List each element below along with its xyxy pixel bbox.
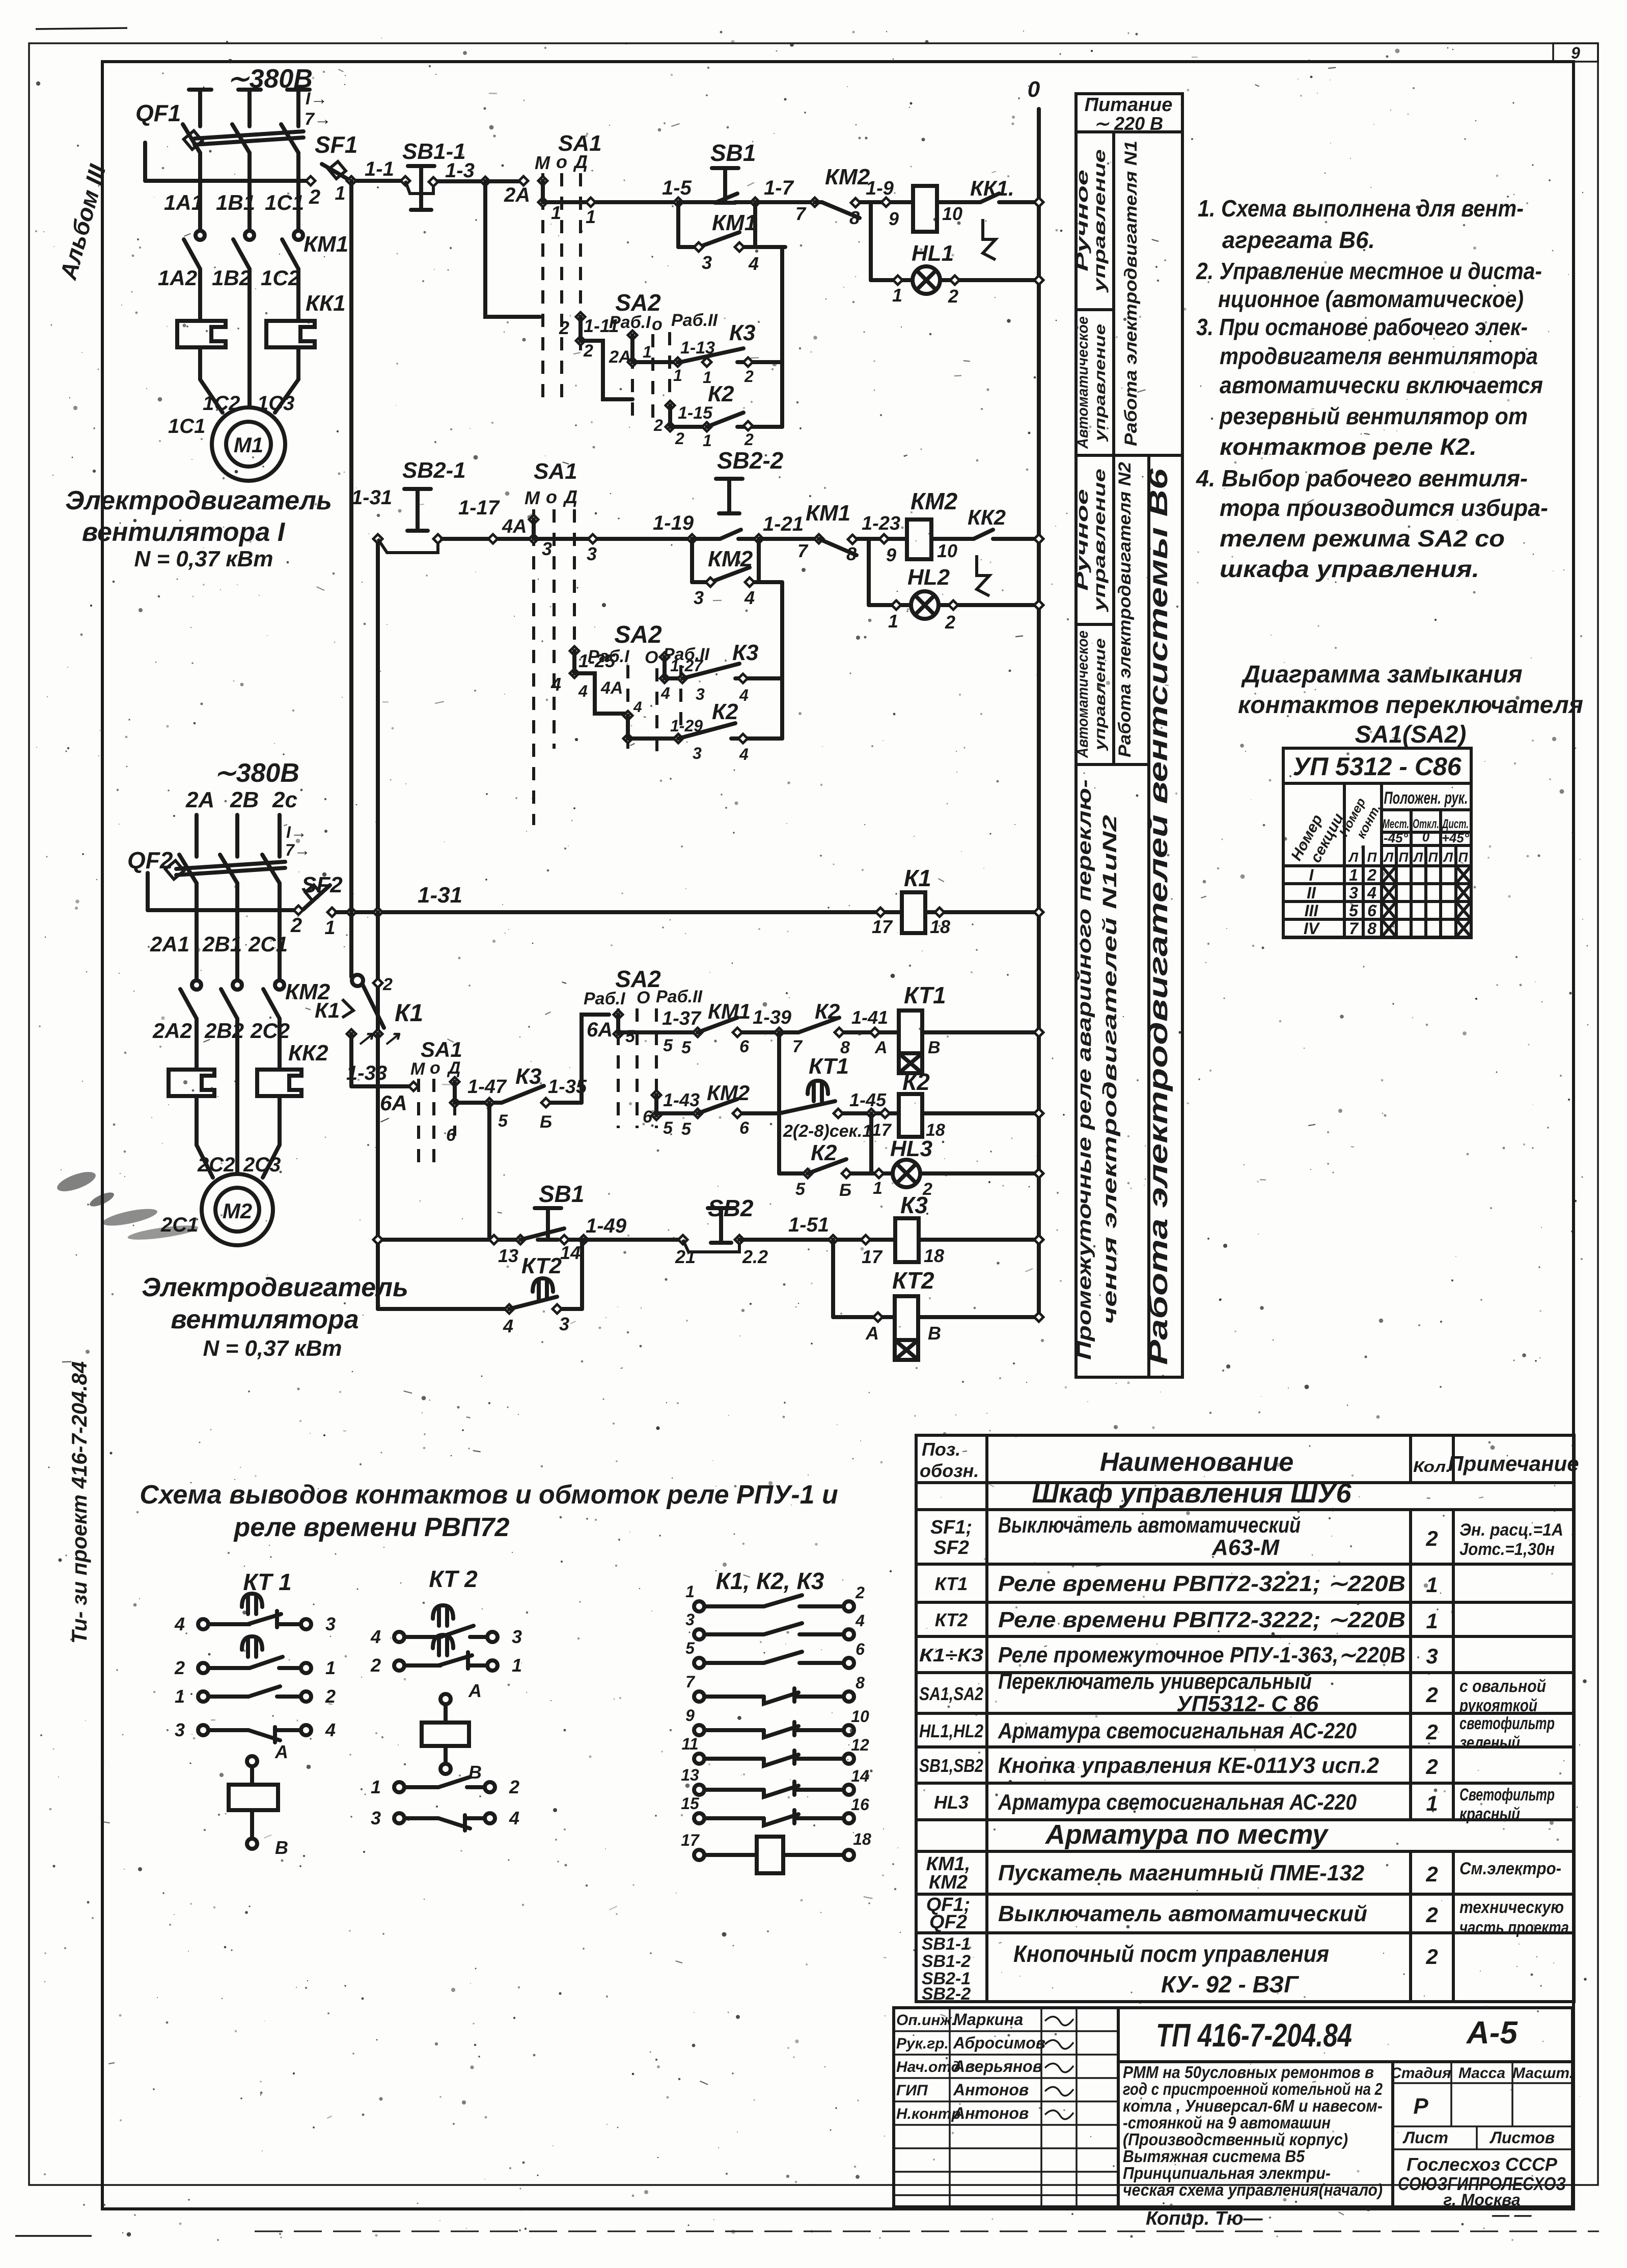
svg-text:2: 2 <box>370 1655 381 1676</box>
svg-text:К1, К2, К3: К1, К2, К3 <box>716 1568 824 1594</box>
svg-text:техническую: техническую <box>1459 1898 1564 1917</box>
svg-text:резервный вентилятор от: резервный вентилятор от <box>1219 403 1528 429</box>
svg-text:А: А <box>274 1741 288 1762</box>
svg-text:1-43: 1-43 <box>663 1089 700 1110</box>
svg-text:Переключатель универсальный: Переключатель универсальный <box>998 1669 1312 1694</box>
svg-text:П: П <box>1458 850 1469 865</box>
svg-text:8: 8 <box>1367 919 1376 938</box>
wire 2A jog <box>581 341 632 399</box>
svg-text:SB1: SB1 <box>539 1181 584 1207</box>
svg-text:0: 0 <box>1422 829 1430 844</box>
svg-text:управление: управление <box>1090 149 1109 293</box>
svg-text:Абросимов: Абросимов <box>953 2034 1045 2052</box>
svg-text:Дист.: Дист. <box>1442 817 1469 831</box>
svg-text:М: М <box>410 1059 425 1079</box>
margin note Альбом III <box>54 161 111 283</box>
svg-text:КМ2: КМ2 <box>911 488 958 514</box>
svg-text:Светофильтр: Светофильтр <box>1459 1785 1555 1805</box>
svg-text:4: 4 <box>633 699 642 716</box>
wire 1-37 <box>618 1030 698 1034</box>
svg-text:3. При останове рабочего элек-: 3. При останове рабочего элек- <box>1196 314 1528 340</box>
svg-text:1-21: 1-21 <box>763 513 804 535</box>
svg-text:Работа электродвигателя N1: Работа электродвигателя N1 <box>1121 141 1141 446</box>
wire SA2 collector riser 1 <box>780 247 784 427</box>
contact row <box>694 1691 704 1702</box>
svg-text:1-41: 1-41 <box>851 1007 888 1028</box>
svg-text:2: 2 <box>948 286 958 307</box>
sidebar cell автоматическое управление 1 <box>1074 316 1091 449</box>
svg-text:КК2: КК2 <box>968 505 1006 529</box>
svg-text:5: 5 <box>498 1111 508 1131</box>
svg-text:6А: 6А <box>587 1019 613 1041</box>
svg-text:6А: 6А <box>380 1091 407 1115</box>
svg-text:3: 3 <box>702 252 712 273</box>
svg-text:управление: управление <box>1090 469 1109 613</box>
svg-text:4: 4 <box>1367 884 1376 902</box>
svg-text:7: 7 <box>792 1037 803 1056</box>
svg-text:SA1: SA1 <box>534 459 577 484</box>
sidebar cell автоматическое управление 2 <box>1074 631 1091 758</box>
svg-text:Оп.инж.: Оп.инж. <box>896 2012 956 2029</box>
svg-text:2: 2 <box>1425 1720 1438 1744</box>
svg-text:4: 4 <box>550 674 561 695</box>
motor M2 <box>202 1174 273 1245</box>
svg-text:N = 0,37 кВт: N = 0,37 кВт <box>203 1336 342 1361</box>
svg-text:ТП 416-7-204.84: ТП 416-7-204.84 <box>1156 2017 1352 2054</box>
svg-text:SF1;: SF1; <box>930 1517 972 1538</box>
svg-text:2А: 2А <box>504 184 530 206</box>
svg-text:К2: К2 <box>708 381 734 406</box>
svg-text:I: I <box>1309 866 1314 884</box>
svg-text:реле времени РВП72: реле времени РВП72 <box>233 1513 510 1542</box>
svg-text:Гослесхоз СССР: Гослесхоз СССР <box>1407 2154 1558 2175</box>
svg-text:1: 1 <box>325 1657 336 1678</box>
svg-text:К2: К2 <box>712 699 738 724</box>
svg-text:2: 2 <box>1367 866 1376 884</box>
svg-text:HL3: HL3 <box>890 1136 932 1161</box>
svg-text:Л: Л <box>1413 850 1423 865</box>
svg-text:2. Управление местное и диста-: 2. Управление местное и диста- <box>1196 258 1542 284</box>
svg-text:обозн.: обозн. <box>920 1460 979 1481</box>
svg-text:нционное (автоматическое): нционное (автоматическое) <box>1218 286 1524 312</box>
svg-text:ГИП: ГИП <box>896 2082 928 2099</box>
svg-text:К1: К1 <box>904 865 931 891</box>
svg-text:Л: Л <box>1443 850 1453 865</box>
contact row <box>694 1725 704 1735</box>
svg-text:Автоматическое: Автоматическое <box>1074 631 1091 758</box>
svg-text:КМ1: КМ1 <box>712 210 757 235</box>
svg-text:1-31: 1-31 <box>351 486 392 509</box>
svg-text:— —: — — <box>1492 2205 1532 2225</box>
svg-text:1С2: 1С2 <box>261 266 300 290</box>
breaker QF2 tie bar <box>176 862 285 869</box>
contact row <box>694 1785 704 1795</box>
svg-text:HL2: HL2 <box>907 565 950 590</box>
svg-text:1: 1 <box>703 431 712 450</box>
svg-text:9: 9 <box>889 208 899 229</box>
wire SA2 branch riser 1 <box>483 181 487 314</box>
svg-text:4: 4 <box>509 1808 519 1828</box>
svg-text:1-51: 1-51 <box>788 1214 829 1236</box>
sidebar cell промежуточные реле <box>1074 779 1095 1360</box>
svg-text:1-9: 1-9 <box>866 178 894 199</box>
wire riser to SB1 row <box>487 1103 491 1240</box>
svg-text:4А: 4А <box>600 678 623 698</box>
svg-text:К2: К2 <box>902 1069 930 1095</box>
svg-text:1. Схема выполнена для вент-: 1. Схема выполнена для вент- <box>1198 195 1524 222</box>
svg-text:часть проекта: часть проекта <box>1459 1918 1569 1937</box>
svg-text:1А1: 1А1 <box>164 190 203 214</box>
page number box 9 <box>1553 43 1598 62</box>
svg-text:4: 4 <box>370 1626 381 1647</box>
svg-text:М: М <box>525 487 540 508</box>
svg-text:6: 6 <box>1367 901 1376 920</box>
svg-text:Антонов: Антонов <box>953 2081 1029 2099</box>
bus row2 left <box>148 908 298 912</box>
svg-text:17: 17 <box>872 916 893 937</box>
wire to SB2-2 <box>534 537 692 541</box>
svg-text:4: 4 <box>503 1316 513 1336</box>
svg-text:Раб.II: Раб.II <box>671 311 719 330</box>
svg-text:год с пристроенной котельной н: год с пристроенной котельной на 2 <box>1123 2080 1383 2098</box>
svg-text:2: 2 <box>382 975 393 994</box>
svg-text:4: 4 <box>660 684 670 702</box>
svg-text:3: 3 <box>685 1610 695 1629</box>
svg-text:КМ1: КМ1 <box>806 501 850 526</box>
motor M1 <box>212 407 285 481</box>
svg-text:Масса: Масса <box>1458 2065 1505 2082</box>
svg-text:1: 1 <box>685 1582 695 1601</box>
svg-text:6: 6 <box>446 1126 456 1145</box>
svg-text:Диаграмма замыкания: Диаграмма замыкания <box>1240 661 1522 688</box>
svg-text:Раб.I: Раб.I <box>584 989 626 1008</box>
svg-text:А-5: А-5 <box>1466 2015 1518 2051</box>
svg-text:1: 1 <box>1349 866 1358 884</box>
svg-text:о: о <box>430 1058 440 1078</box>
svg-text:IV: IV <box>1304 919 1320 938</box>
svg-text:QF1: QF1 <box>135 100 181 126</box>
svg-text:Электродвигатель: Электродвигатель <box>65 486 332 515</box>
svg-text:К1: К1 <box>315 998 340 1022</box>
wire phase stub <box>195 815 199 857</box>
signature table <box>894 2030 1118 2032</box>
svg-text:1-33: 1-33 <box>346 1062 387 1084</box>
svg-text:Б: Б <box>540 1112 552 1132</box>
svg-text:HL3: HL3 <box>934 1792 969 1813</box>
svg-text:Антонов: Антонов <box>953 2104 1029 2122</box>
wire phase stub <box>238 88 261 92</box>
sidebar table <box>1076 94 1182 1377</box>
svg-text:Работа электродвигателей вентс: Работа электродвигателей вентсистемы В6 <box>1144 468 1173 1365</box>
svg-text:1-47: 1-47 <box>467 1076 507 1098</box>
svg-text:1: 1 <box>873 1179 883 1198</box>
svg-text:0: 0 <box>1028 77 1040 102</box>
svg-text:5: 5 <box>1349 901 1359 920</box>
svg-text:SA1: SA1 <box>421 1037 462 1061</box>
contact row <box>694 1813 704 1823</box>
svg-text:13: 13 <box>498 1245 518 1266</box>
svg-text:Наименование: Наименование <box>1100 1447 1294 1477</box>
svg-text:6: 6 <box>739 1118 750 1138</box>
breaker QF1 tie bar <box>195 131 304 139</box>
svg-text:7: 7 <box>685 1673 696 1691</box>
svg-text:1-39: 1-39 <box>753 1007 791 1028</box>
svg-text:Б: Б <box>839 1181 851 1200</box>
svg-text:1: 1 <box>551 202 561 223</box>
svg-text:4: 4 <box>578 682 588 700</box>
svg-text:УП 5312 - С86: УП 5312 - С86 <box>1292 752 1461 781</box>
svg-text:2: 2 <box>744 367 754 386</box>
svg-text:9: 9 <box>685 1706 695 1725</box>
svg-text:2: 2 <box>1425 1903 1438 1927</box>
svg-text:III: III <box>1305 901 1319 920</box>
svg-text:7: 7 <box>797 540 809 561</box>
svg-text:2В2: 2В2 <box>204 1019 244 1043</box>
wire phase stub <box>278 815 282 857</box>
svg-text:светофильтр: светофильтр <box>1459 1714 1555 1733</box>
svg-text:I→: I→ <box>306 89 327 108</box>
svg-text:К1: К1 <box>395 1000 423 1027</box>
svg-text:КТ2: КТ2 <box>935 1609 968 1630</box>
svg-text:10: 10 <box>937 540 957 561</box>
svg-text:Мест.: Мест. <box>1383 817 1409 831</box>
svg-text:SA2: SA2 <box>615 289 661 316</box>
svg-text:Вытяжная система В5: Вытяжная система В5 <box>1123 2147 1305 2166</box>
wire SA2 collector riser 2 <box>780 582 784 739</box>
svg-text:Нач.отд: Нач.отд <box>896 2059 960 2075</box>
svg-text:1-45: 1-45 <box>849 1089 887 1110</box>
svg-text:Шкаф управления ШУ6: Шкаф управления ШУ6 <box>1032 1478 1352 1509</box>
svg-text:4: 4 <box>855 1611 865 1630</box>
wire long feeder riser <box>376 539 380 1309</box>
svg-text:КК1: КК1 <box>306 291 346 316</box>
svg-text:SB1,SB2: SB1,SB2 <box>919 1755 983 1776</box>
svg-text:красный: красный <box>1459 1805 1520 1824</box>
svg-text:15: 15 <box>681 1794 700 1813</box>
svg-text:Л: Л <box>1383 850 1394 865</box>
wire SF1 feeder riser <box>349 181 353 912</box>
wire phase stub <box>287 88 310 92</box>
wire phase stub <box>189 88 211 92</box>
svg-text:РММ на 50условных ремонтов в: РММ на 50условных ремонтов в <box>1123 2063 1374 2082</box>
svg-text:зеленый: зеленый <box>1459 1733 1520 1753</box>
svg-text:Пускатель магнитный ПМЕ-132: Пускатель магнитный ПМЕ-132 <box>998 1861 1365 1886</box>
svg-text:Реле времени РВП72-3221; ∼220: Реле времени РВП72-3221; ∼220В <box>998 1571 1405 1596</box>
svg-text:чения электродвигателей N1иN2: чения электродвигателей N1иN2 <box>1099 815 1121 1324</box>
svg-text:3: 3 <box>1426 1644 1438 1668</box>
svg-text:8: 8 <box>846 543 857 564</box>
svg-text:К3: К3 <box>515 1064 542 1089</box>
svg-text:КТ2: КТ2 <box>892 1267 934 1294</box>
sidebar cell ручное управление 2 <box>1073 489 1091 591</box>
svg-text:2: 2 <box>855 1583 865 1602</box>
wire 1-11 row <box>485 181 540 317</box>
svg-text:↗: ↗ <box>356 1027 374 1050</box>
svg-text:3: 3 <box>587 543 597 564</box>
svg-text:КТ2: КТ2 <box>521 1253 562 1278</box>
svg-text:I→: I→ <box>286 823 307 841</box>
svg-text:П: П <box>1428 850 1439 865</box>
svg-text:4: 4 <box>748 253 759 274</box>
svg-text:8: 8 <box>849 207 860 228</box>
svg-text:∼ 220 В: ∼ 220 В <box>1094 113 1163 134</box>
svg-text:В: В <box>928 1038 941 1057</box>
sidebar cell работа вентсистемы В6 <box>1144 468 1173 1365</box>
svg-text:П: П <box>1399 850 1409 865</box>
svg-text:13: 13 <box>681 1766 699 1784</box>
svg-text:А63-М: А63-М <box>1211 1535 1280 1560</box>
wire control tap 2 <box>146 873 150 910</box>
svg-text:Л: Л <box>1348 850 1359 865</box>
svg-text:1-49: 1-49 <box>586 1215 627 1237</box>
svg-text:10: 10 <box>851 1707 869 1726</box>
svg-text:2С2: 2С2 <box>250 1019 290 1043</box>
svg-text:1: 1 <box>586 206 596 227</box>
svg-text:1-19: 1-19 <box>653 512 694 534</box>
svg-text:2: 2 <box>1425 1862 1438 1886</box>
svg-text:Кол.: Кол. <box>1413 1458 1451 1475</box>
svg-text:управление: управление <box>1092 638 1109 751</box>
svg-text:2: 2 <box>1425 1945 1438 1969</box>
svg-text:Арматура светосигнальная АС-2: Арматура светосигнальная АС-220 <box>998 1790 1357 1815</box>
svg-text:2: 2 <box>583 341 593 361</box>
svg-text:В: В <box>468 1762 482 1783</box>
svg-text:SB2-2: SB2-2 <box>922 1984 971 2004</box>
svg-text:17: 17 <box>862 1246 883 1267</box>
lamp HL2 branch <box>867 539 871 605</box>
svg-text:КТ1: КТ1 <box>809 1054 849 1079</box>
svg-text:1-5: 1-5 <box>662 177 692 199</box>
svg-text:4: 4 <box>739 686 749 704</box>
svg-text:SB2-1: SB2-1 <box>402 458 466 483</box>
svg-text:2: 2 <box>744 430 754 449</box>
svg-text:+45°: +45° <box>1442 830 1470 845</box>
svg-text:1: 1 <box>1426 1791 1438 1815</box>
sidebar cell работа электродвигателя N2 <box>1115 462 1135 757</box>
svg-text:КУ- 92 - ВЗГ: КУ- 92 - ВЗГ <box>1161 1971 1299 1998</box>
svg-text:8: 8 <box>856 1674 865 1692</box>
svg-text:SA1,SA2: SA1,SA2 <box>919 1683 983 1704</box>
svg-text:2С1: 2С1 <box>248 932 288 956</box>
svg-text:2: 2 <box>1425 1526 1438 1550</box>
svg-text:4: 4 <box>744 587 755 608</box>
svg-text:автоматически включается: автоматически включается <box>1220 372 1543 398</box>
wire 1-43 <box>656 1111 698 1115</box>
wires to motor M1 <box>200 379 223 413</box>
svg-text:1: 1 <box>175 1686 185 1707</box>
svg-text:Питание: Питание <box>1085 94 1173 116</box>
svg-text:А: А <box>865 1323 879 1344</box>
svg-text:SB2-2: SB2-2 <box>717 447 784 474</box>
svg-text:1: 1 <box>888 611 898 632</box>
svg-text:Стадия: Стадия <box>1390 2065 1451 2082</box>
svg-text:3: 3 <box>694 587 704 608</box>
svg-text:11: 11 <box>681 1735 698 1753</box>
svg-text:SF1: SF1 <box>315 131 357 158</box>
svg-text:Поз.: Поз. <box>922 1439 960 1460</box>
svg-text:А: А <box>874 1038 888 1057</box>
svg-text:К3: К3 <box>732 640 759 665</box>
svg-text:3: 3 <box>175 1719 185 1740</box>
svg-text:вентилятора I: вентилятора I <box>82 517 286 547</box>
svg-text:1-7: 1-7 <box>764 177 794 199</box>
svg-text:SA1(SA2): SA1(SA2) <box>1355 721 1467 748</box>
svg-text:шкафа управления.: шкафа управления. <box>1220 556 1479 582</box>
svg-text:вентилятора: вентилятора <box>171 1305 359 1334</box>
svg-text:контактов реле К2.: контактов реле К2. <box>1220 433 1477 460</box>
stage cells <box>1393 2082 1573 2084</box>
svg-text:(Производственный корпус): (Производственный корпус) <box>1123 2130 1348 2149</box>
svg-text:2С2: 2С2 <box>197 1154 235 1176</box>
svg-text:3: 3 <box>325 1614 336 1634</box>
wire 1-5 <box>543 200 678 204</box>
relay coil KM1 <box>913 186 937 232</box>
svg-text:1: 1 <box>643 343 652 361</box>
margin note project number <box>67 1361 91 1644</box>
svg-text:Схема выводов контактов и обмо: Схема выводов контактов и обмоток реле Р… <box>140 1480 838 1510</box>
svg-text:КМ2: КМ2 <box>825 165 870 189</box>
svg-text:Выключатель автоматический: Выключатель автоматический <box>998 1901 1367 1926</box>
svg-text:7→: 7→ <box>285 841 311 859</box>
svg-text:КТ 2: КТ 2 <box>429 1566 478 1592</box>
sidebar cell работа электродвигателя N1 <box>1121 141 1141 446</box>
svg-text:управление: управление <box>1092 324 1109 443</box>
svg-text:Кнопка управления КЕ-011У3 и: Кнопка управления КЕ-011У3 исп.2 <box>998 1753 1380 1778</box>
svg-text:2: 2 <box>675 429 684 448</box>
svg-text:Принципиальная электри-: Принципиальная электри- <box>1123 2164 1331 2182</box>
svg-text:4: 4 <box>174 1614 185 1634</box>
svg-text:17: 17 <box>681 1831 700 1849</box>
svg-text:HL1,HL2: HL1,HL2 <box>919 1720 983 1741</box>
parts table <box>916 1435 1574 2002</box>
svg-text:КК2: КК2 <box>288 1041 328 1065</box>
contact row <box>694 1658 704 1668</box>
svg-text:В: В <box>928 1323 941 1344</box>
svg-text:П: П <box>1367 850 1377 865</box>
svg-text:тора производится избира-: тора производится избира- <box>1220 495 1548 521</box>
svg-text:См.электро-: См.электро- <box>1459 1859 1561 1878</box>
svg-text:КМ1: КМ1 <box>304 232 348 257</box>
svg-text:18: 18 <box>924 1245 944 1266</box>
svg-text:Реле времени РВП72-3222; ∼220: Реле времени РВП72-3222; ∼220В <box>998 1607 1405 1632</box>
svg-text:SB1-2: SB1-2 <box>922 1952 971 1971</box>
svg-text:5: 5 <box>685 1639 695 1657</box>
svg-text:↗: ↗ <box>383 1027 401 1050</box>
svg-text:-стоянкой на 9 автомашин: -стоянкой на 9 автомашин <box>1123 2113 1331 2132</box>
svg-text:2.2: 2.2 <box>742 1246 768 1267</box>
svg-text:2: 2 <box>174 1657 185 1678</box>
svg-text:QF2: QF2 <box>929 1911 967 1933</box>
coil row 17-18 <box>694 1850 704 1860</box>
svg-text:1-17: 1-17 <box>458 497 500 519</box>
svg-text:Кнопочный пост управления: Кнопочный пост управления <box>1013 1941 1329 1967</box>
svg-text:Ручное: Ручное <box>1073 170 1091 271</box>
svg-text:2А: 2А <box>185 787 214 812</box>
svg-text:тродвигателя вентилятора: тродвигателя вентилятора <box>1220 343 1538 369</box>
svg-text:1В2: 1В2 <box>212 266 251 290</box>
lamp HL1 branch <box>869 202 873 280</box>
svg-text:12: 12 <box>851 1736 869 1754</box>
title block <box>894 2008 1573 2207</box>
svg-text:21: 21 <box>675 1246 696 1267</box>
svg-text:КТ1: КТ1 <box>935 1573 968 1594</box>
svg-text:7→: 7→ <box>305 110 332 129</box>
svg-text:1: 1 <box>892 285 902 306</box>
contact row <box>694 1754 704 1764</box>
svg-text:В: В <box>275 1837 288 1858</box>
svg-text:2: 2 <box>509 1777 519 1797</box>
svg-text:М1: М1 <box>234 433 263 457</box>
